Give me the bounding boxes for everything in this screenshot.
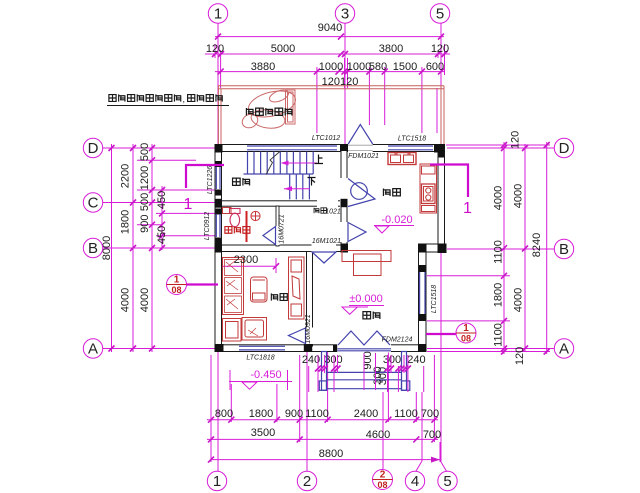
grid bubble 1 bottom bbox=[207, 471, 226, 490]
svg-text:450: 450 bbox=[156, 191, 168, 209]
svg-text:120120: 120120 bbox=[322, 76, 359, 88]
svg-text:2400: 2400 bbox=[354, 408, 378, 420]
up label bbox=[315, 155, 324, 164]
svg-text:1: 1 bbox=[463, 200, 472, 217]
svg-text:1: 1 bbox=[213, 473, 221, 490]
B-axis step wall bbox=[419, 244, 445, 252]
window LTC1518 east hall bbox=[420, 272, 425, 314]
svg-text:LTC0912: LTC0912 bbox=[204, 212, 211, 240]
svg-text:600: 600 bbox=[426, 61, 444, 73]
svg-text:LTC1818: LTC1818 bbox=[246, 355, 274, 362]
svg-text:1: 1 bbox=[214, 6, 222, 23]
staircase landing edge bbox=[244, 173, 314, 175]
grid bubble 5 top bbox=[430, 4, 449, 23]
svg-text:-0.450: -0.450 bbox=[250, 369, 281, 381]
svg-text:1800: 1800 bbox=[120, 210, 132, 234]
svg-text:240: 240 bbox=[302, 354, 320, 366]
svg-text:1: 1 bbox=[184, 196, 193, 213]
svg-text:4000: 4000 bbox=[513, 288, 525, 312]
grid-3 interior wall bbox=[341, 145, 347, 253]
column blocks bbox=[215, 144, 447, 352]
hall label bbox=[363, 311, 380, 319]
svg-text:08: 08 bbox=[377, 480, 387, 490]
door FDM2124 double leaf bbox=[338, 331, 390, 345]
svg-text:4600: 4600 bbox=[366, 429, 390, 441]
east hall exterior wall bbox=[419, 244, 427, 352]
staircase lower flight treads bbox=[290, 174, 310, 199]
svg-text:240: 240 bbox=[407, 354, 425, 366]
courtyard top wall bbox=[218, 86, 444, 89]
staircase down arrow bbox=[284, 188, 310, 190]
B-axis interior wall left bbox=[215, 245, 347, 252]
svg-text:3880: 3880 bbox=[251, 61, 275, 73]
8800 arrowhead bbox=[431, 457, 440, 463]
svg-text:1: 1 bbox=[174, 275, 180, 286]
svg-text:2: 2 bbox=[380, 470, 386, 481]
courtyard right wall bbox=[441, 86, 444, 144]
door kitchen upper leaf bbox=[348, 179, 375, 207]
left dim line 500/1200/500/900/4000 bbox=[151, 144, 153, 352]
detail bubble 2/08 bottom bbox=[373, 470, 393, 491]
svg-text:LTC1012: LTC1012 bbox=[312, 135, 340, 142]
grid bubble D left bbox=[83, 138, 102, 157]
svg-text:5: 5 bbox=[443, 473, 451, 490]
svg-text:450: 450 bbox=[156, 226, 168, 244]
bathroom partition wall bbox=[276, 206, 279, 246]
grid bubble 1 top bbox=[208, 4, 227, 23]
grid line D horizontal bbox=[103, 147, 215, 149]
right extension lines bbox=[427, 145, 550, 352]
east kitchen exterior wall bbox=[438, 145, 445, 253]
bottom dim line 3500/4600/700 bbox=[207, 438, 438, 440]
dim tick marks bbox=[109, 34, 550, 463]
left dim line 2200/1800/4000 bbox=[132, 144, 134, 352]
kitchen counter and stove bbox=[420, 164, 437, 213]
svg-text:2200: 2200 bbox=[120, 164, 132, 188]
septic tank label bbox=[246, 108, 292, 116]
svg-text:800: 800 bbox=[215, 408, 233, 420]
grid bubble 4 bottom bbox=[405, 471, 424, 490]
grid line 1 vertical bbox=[217, 23, 219, 471]
svg-text:8800: 8800 bbox=[319, 448, 343, 460]
bottom extension lines bbox=[211, 352, 440, 462]
svg-text:3500: 3500 bbox=[251, 427, 275, 439]
svg-text:A: A bbox=[88, 341, 98, 358]
bottom dim line 800/1800/900/1100/2400/1100/700 bbox=[207, 419, 438, 421]
left extension lines bbox=[137, 160, 218, 236]
living room label bbox=[271, 293, 287, 300]
grid line A horizontal bbox=[103, 348, 215, 350]
hall table bbox=[342, 251, 391, 276]
hall level mark bbox=[342, 293, 384, 314]
grid bubble 5 bottom bbox=[438, 471, 457, 490]
window LTC1226 west bbox=[216, 167, 220, 189]
top extension lines bbox=[215, 44, 445, 133]
svg-text:8240: 8240 bbox=[531, 233, 543, 257]
C-axis interior wall bbox=[215, 201, 347, 206]
svg-text:4000: 4000 bbox=[493, 186, 505, 210]
top dim line 120/5000/3800/120 bbox=[205, 53, 450, 55]
detail bubble 1/08 right bbox=[426, 323, 476, 344]
svg-text:1000: 1000 bbox=[319, 61, 343, 73]
right dim line 8240 bbox=[546, 142, 548, 354]
svg-text:LTC1518: LTC1518 bbox=[431, 285, 438, 313]
svg-text:2: 2 bbox=[303, 473, 311, 490]
svg-text:5: 5 bbox=[436, 6, 444, 23]
svg-text:16M1021: 16M1021 bbox=[312, 238, 341, 245]
storage room label bbox=[233, 178, 251, 186]
door bathroom leaf 16M0721 bbox=[263, 227, 276, 245]
svg-text:D: D bbox=[88, 140, 99, 157]
svg-text:08: 08 bbox=[461, 334, 471, 344]
living room stool bbox=[223, 319, 242, 342]
top dim line 9040 bbox=[215, 36, 444, 38]
grid bubble C left bbox=[83, 193, 102, 212]
svg-text:16M0721: 16M0721 bbox=[279, 214, 286, 243]
svg-text:1021: 1021 bbox=[325, 209, 341, 216]
svg-text:FDM1021: FDM1021 bbox=[348, 153, 379, 160]
detail line 2/08 vertical bbox=[382, 392, 384, 469]
living room sofa column bbox=[223, 258, 244, 315]
north exterior wall bbox=[215, 145, 445, 152]
bathroom label (red) bbox=[225, 226, 250, 233]
svg-text:120: 120 bbox=[514, 347, 526, 365]
outdoor level mark bbox=[229, 369, 292, 390]
staircase break line bbox=[266, 151, 281, 175]
window LTC0912 west bbox=[216, 214, 220, 237]
svg-text:900: 900 bbox=[139, 215, 151, 233]
svg-text:4000: 4000 bbox=[139, 288, 151, 312]
grid line 2 lower vertical bbox=[306, 351, 308, 471]
svg-text:1100: 1100 bbox=[305, 408, 329, 420]
svg-text:4000: 4000 bbox=[513, 184, 525, 208]
svg-text:120: 120 bbox=[431, 43, 449, 55]
svg-text:120: 120 bbox=[510, 131, 522, 149]
svg-text:700: 700 bbox=[421, 408, 439, 420]
porch right rail bbox=[402, 352, 407, 391]
right dim line 4000/4000 bbox=[524, 144, 526, 352]
living room armchair bbox=[242, 318, 267, 341]
toilet bbox=[230, 209, 241, 227]
porch dim extension lines bbox=[309, 353, 424, 392]
kitchen sink bbox=[388, 153, 416, 165]
svg-text:1200: 1200 bbox=[139, 166, 151, 190]
staircase upper flight treads bbox=[248, 152, 314, 175]
staircase up arrow bbox=[282, 162, 317, 164]
svg-text:1800: 1800 bbox=[493, 283, 505, 307]
grid bubble 3 top bbox=[335, 4, 354, 23]
right dim line 120/4000/1100/1800/1100/120 bbox=[503, 142, 505, 354]
kitchen level mark bbox=[374, 214, 414, 233]
svg-text:700: 700 bbox=[423, 429, 441, 441]
svg-text:1: 1 bbox=[463, 323, 469, 334]
bottom dim line 8800 bbox=[211, 459, 440, 461]
svg-text:900: 900 bbox=[285, 408, 303, 420]
svg-text:-0.020: -0.020 bbox=[381, 214, 412, 226]
svg-text:1100: 1100 bbox=[493, 323, 505, 347]
wall door gaps bbox=[276, 144, 392, 353]
grid bubble D right bbox=[554, 138, 573, 157]
door FDM1021 leaf bbox=[348, 125, 373, 145]
grid line 5 vertical bbox=[440, 23, 442, 462]
svg-text:LTC1226: LTC1226 bbox=[207, 166, 214, 194]
section line 1 right bbox=[430, 165, 472, 218]
svg-text:A: A bbox=[559, 341, 569, 358]
courtyard left wall bbox=[218, 86, 221, 144]
svg-text:1500: 1500 bbox=[393, 61, 417, 73]
detail bubble 1/08 left bbox=[167, 275, 219, 296]
door 16M0921 leaf bbox=[289, 328, 306, 344]
porch left rail bbox=[322, 352, 327, 391]
grid bubble B right bbox=[554, 239, 573, 258]
svg-text:B: B bbox=[559, 241, 569, 258]
left dim line 450/450 bbox=[161, 186, 163, 250]
svg-text:4: 4 bbox=[411, 473, 419, 490]
svg-text:5000: 5000 bbox=[271, 43, 295, 55]
door FDM1021 threshold bbox=[348, 145, 373, 150]
left dim line 8000 bbox=[111, 144, 113, 352]
svg-text:,: , bbox=[183, 94, 186, 104]
svg-text:B: B bbox=[88, 240, 98, 257]
wash basin bbox=[251, 211, 260, 220]
svg-text:120: 120 bbox=[206, 43, 224, 55]
shower partition bbox=[246, 211, 248, 242]
svg-text:FDM2124: FDM2124 bbox=[382, 337, 413, 344]
west exterior wall bbox=[215, 145, 222, 352]
svg-text:9040: 9040 bbox=[318, 22, 342, 34]
grid line C horizontal bbox=[103, 202, 218, 204]
grid bubble B left bbox=[83, 238, 102, 257]
svg-text:300: 300 bbox=[383, 354, 401, 366]
grid line 4 lower vertical bbox=[421, 392, 423, 461]
svg-text:3: 3 bbox=[341, 6, 349, 23]
svg-text:1000: 1000 bbox=[347, 61, 371, 73]
section line 1 left bbox=[184, 165, 224, 213]
grid bubble 2 bottom bbox=[297, 471, 316, 490]
svg-text:1100: 1100 bbox=[394, 408, 418, 420]
door 16M1021 leaf bbox=[312, 252, 336, 263]
svg-text:1800: 1800 bbox=[249, 408, 273, 420]
door corridor-kitchen leaf bbox=[348, 223, 366, 242]
down label bbox=[308, 178, 316, 186]
svg-text:±0.000: ±0.000 bbox=[349, 293, 383, 305]
svg-text:D: D bbox=[559, 140, 570, 157]
svg-text:3800: 3800 bbox=[379, 43, 403, 55]
porch dim ticks bbox=[315, 366, 411, 372]
window LTC1818 south bbox=[239, 346, 285, 350]
kitchen label bbox=[383, 188, 400, 196]
top dim line 3880/1000/1000/580/1500/600 bbox=[215, 71, 444, 73]
svg-text:C: C bbox=[88, 195, 99, 212]
svg-text:500: 500 bbox=[139, 143, 151, 161]
door opening label bbox=[314, 208, 326, 214]
svg-text:4000: 4000 bbox=[120, 288, 132, 312]
note text top-left bbox=[107, 94, 229, 106]
window LTC1012 north bbox=[247, 146, 337, 150]
svg-text:16M0921: 16M0921 bbox=[305, 314, 312, 343]
grid-2 interior wall bbox=[307, 247, 313, 346]
grid line 3 vertical bbox=[344, 23, 346, 148]
svg-text:2300: 2300 bbox=[234, 254, 258, 266]
svg-text:08: 08 bbox=[171, 285, 181, 295]
2300 dim line living room bbox=[219, 265, 276, 267]
porch steps bbox=[327, 372, 402, 388]
bathroom counter bbox=[223, 208, 232, 214]
septic tank bbox=[240, 87, 298, 131]
grid bubble A right bbox=[554, 339, 573, 358]
svg-text:580: 580 bbox=[369, 61, 387, 73]
living room tv cabinet bbox=[289, 257, 305, 319]
south exterior wall bbox=[215, 345, 426, 352]
living room coffee table bbox=[251, 277, 268, 302]
svg-text:LTC1518: LTC1518 bbox=[398, 136, 426, 143]
window LTC1518 north bbox=[388, 146, 433, 150]
grid line B horizontal bbox=[103, 247, 215, 249]
svg-text:1100: 1100 bbox=[493, 240, 505, 264]
svg-text:500: 500 bbox=[139, 193, 151, 211]
grid bubble A left bbox=[83, 339, 102, 358]
